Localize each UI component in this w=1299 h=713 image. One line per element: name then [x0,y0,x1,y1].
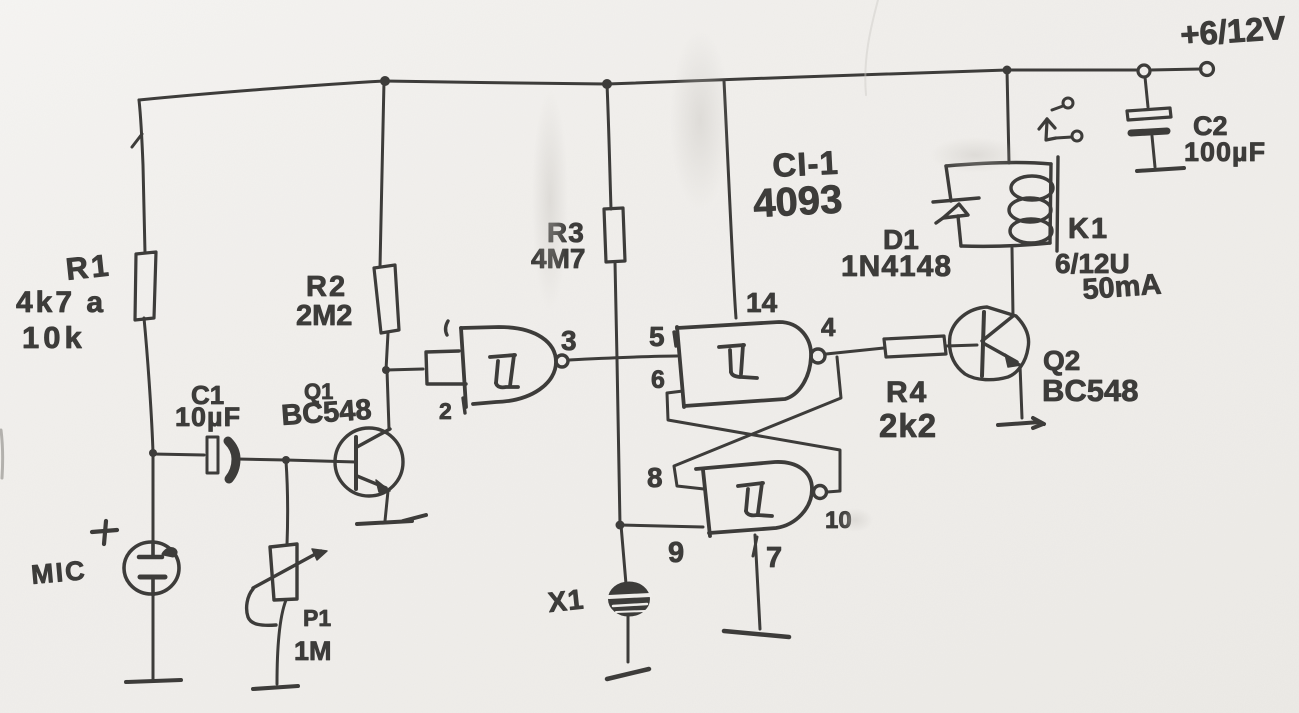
wire X1 to ground [627,616,630,662]
node junction R3-X1-pin9 [616,521,625,530]
resistor R1 [135,252,156,320]
ground under Q2 [998,418,1044,428]
wire rail to pin 14 [724,81,736,318]
wire top supply rail [139,69,1201,100]
svg-text:8: 8 [647,462,663,493]
resistor R3 [604,208,625,262]
wire gate2 output to R4 [826,348,884,354]
paper crease mark [865,0,878,95]
node junction mic-C1 [149,449,157,457]
svg-text:50mA: 50mA [1081,269,1162,306]
ground under X1 [607,669,649,679]
svg-text:R1: R1 [64,247,113,287]
svg-text:2: 2 [439,398,452,424]
wire base node to Q1 base [286,460,356,462]
wire Q2 emitter to ground [1020,365,1022,418]
node terminal circle +6/12V [1201,63,1214,76]
label plus sign [92,521,117,544]
relay K1 coil [1009,157,1058,251]
svg-text:7: 7 [766,542,782,574]
wire rail down to relay K1 [1007,70,1009,163]
wire Q1 collector up to R2 node [387,370,389,429]
svg-text:MIC: MIC [30,555,88,590]
wire R1 to mic node [144,318,153,453]
svg-text:+6/12V: +6/12V [1179,9,1287,53]
capacitor C2 [1127,108,1184,171]
crystal X1 [609,583,650,616]
pin 1 tick and label [446,321,448,335]
paper edge mark left [1,430,3,478]
svg-text:9: 9 [668,537,684,569]
diode D1 [933,198,979,223]
wire node to gate1 input bracket [386,369,423,370]
ground under P1 [253,686,298,689]
nand gate U1B [677,322,811,407]
wire node to X1 [621,525,626,584]
svg-text:R4: R4 [886,376,928,409]
svg-text:BC548: BC548 [1042,373,1139,408]
gate1 input bracket tying pins 1 and 2 [426,351,466,384]
svg-text:4093: 4093 [752,177,843,226]
resistor R4 [884,336,946,357]
paper smudges [532,30,1020,532]
node junction R2-collector-gate1 [382,366,390,374]
wire node to gate3 pin 9 [620,525,703,527]
wire R4 to Q2 base [946,345,977,346]
microphone MIC [124,542,179,595]
wire gate3 pin 7 to ground [755,535,760,629]
resistor R2 [374,265,399,333]
wire node to C1 [153,454,204,455]
relay contact terminal upper [1052,98,1073,110]
svg-text:14: 14 [746,287,778,318]
svg-text:4: 4 [821,312,836,342]
wire node to mic [152,453,155,542]
wire node down to P1 [286,461,288,545]
pin 7 tick [753,537,757,556]
svg-text:3: 3 [561,325,577,356]
svg-text:K1: K1 [1068,213,1109,245]
node junction rail-R2 [380,76,390,86]
wire R3 to X1 node [615,262,620,525]
ground under Q1 [357,515,426,524]
svg-text:6: 6 [651,366,665,394]
wire P1 to ground [277,600,286,684]
svg-text:BC548: BC548 [280,394,372,432]
wire rail to R2 [380,81,384,267]
wire gate1 output to gate2 pin 5 [568,356,677,360]
svg-text:R2: R2 [306,271,347,303]
pin 5 tick [674,332,676,346]
ground under pin 7 [724,631,789,637]
node junction base-P1 [282,456,290,464]
nand gate U1C [696,462,812,536]
svg-text:P1: P1 [303,605,331,631]
relay contact arrow [1039,119,1056,140]
pin 2 tick [463,398,465,413]
relay contact terminal lower [1056,131,1082,141]
svg-text:2M2: 2M2 [296,300,352,332]
gate2 output bubble pin 4 [811,349,825,363]
svg-text:10µF: 10µF [175,402,241,432]
wire left drop to R1 [132,100,145,253]
wire gate2 output to gate3 pin 8 crossover [674,357,841,489]
svg-text:5: 5 [649,321,665,352]
wire Q2 collector to relay [1012,248,1013,316]
node junction rail-K1 [1003,66,1012,75]
ground under mic [126,680,181,682]
wire gate3 output to gate2 pin 6 crossover [667,391,840,492]
capacitor C1 [207,437,236,479]
svg-text:2k2: 2k2 [879,407,937,444]
node junction rail-R3 [602,79,612,89]
relay K1 box [946,163,1051,247]
svg-text:100µF: 100µF [1184,137,1266,167]
svg-text:1M: 1M [294,636,332,666]
svg-text:4k7 a: 4k7 a [16,286,106,319]
nand gate U1A [461,327,556,407]
svg-text:Q2: Q2 [1043,345,1080,376]
transistor Q1 [335,428,403,496]
wire rail to R3 [607,84,611,209]
transistor Q2 [950,307,1029,380]
gate3 output bubble pin 10 [814,486,827,499]
svg-text:10k: 10k [22,320,86,355]
wire R2 to collector node [386,333,388,370]
potentiometer P1 [247,544,327,625]
wire mic to ground [152,595,155,679]
node terminal circle C2 tap [1138,65,1150,77]
wire C1 to base node [237,459,286,460]
gate1 output bubble pin 3 [556,355,568,367]
wire C2 tap down to C2 [1145,77,1148,107]
svg-text:X1: X1 [546,583,585,618]
wire Q1 emitter to ground [385,491,388,521]
svg-text:1N4148: 1N4148 [841,250,952,283]
